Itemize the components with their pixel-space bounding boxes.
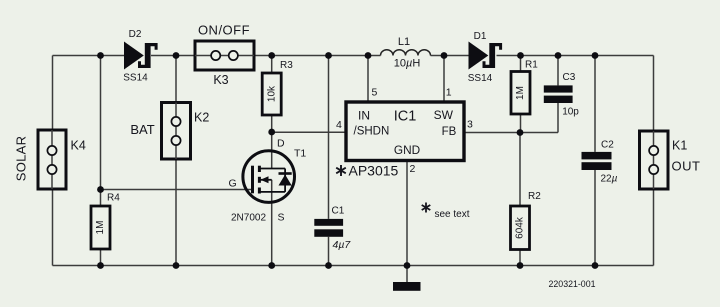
connector K1 (640, 131, 669, 189)
junction dot ground rail x595 (C2) (592, 262, 599, 269)
svg-text:5: 5 (372, 87, 378, 99)
svg-text:4µ7: 4µ7 (333, 239, 352, 251)
label C2 (601, 140, 614, 151)
wire node D to /SHDN pin4 (272, 131, 346, 133)
wire gate horizontal to T1 (101, 189, 253, 191)
junction dot top rail x272 (R3) (268, 52, 275, 59)
diode D1 (Schottky SS14) (469, 42, 503, 70)
svg-text:22µ: 22µ (601, 174, 618, 185)
wire top rail segment D2-to-K3 (node VBAT) (151, 55, 195, 57)
svg-text:1M: 1M (515, 86, 526, 100)
capacitor C2 (582, 152, 612, 170)
label D1 (474, 31, 487, 42)
svg-text:see text: see text (435, 209, 470, 220)
resistor R4 (91, 206, 110, 249)
junction dot ground rail x407 (GND pin) (404, 262, 411, 269)
svg-text:2: 2 (410, 163, 416, 175)
svg-text:BAT: BAT (130, 122, 154, 137)
svg-text:IN: IN (358, 109, 370, 123)
svg-text:10k: 10k (266, 85, 277, 102)
svg-text:10p: 10p (562, 107, 579, 118)
junction dot top rail x100 (97, 52, 104, 59)
junction dot top rail x444 (pin1) (441, 52, 448, 59)
label SOLAR (13, 136, 28, 182)
label K2 (194, 111, 209, 125)
label C3 (563, 72, 576, 83)
capacitor C1 (314, 219, 343, 237)
svg-text:K1: K1 (672, 138, 687, 152)
svg-text:220321-001: 220321-001 (549, 279, 596, 289)
wire R1 top lead (520, 56, 522, 72)
label BAT (130, 122, 154, 137)
label * AP3015 (336, 163, 398, 179)
wire IC1 pin5 IN lead (367, 56, 369, 103)
value label 10µH (394, 58, 421, 70)
svg-text:R1: R1 (525, 60, 538, 71)
connector K3 (195, 41, 254, 70)
wire left rail vertical (K4 branch) (52, 56, 54, 266)
value label 10p (562, 107, 579, 118)
pin number 4 (336, 119, 342, 131)
value label SS14 (D2) (123, 73, 148, 84)
wire IC1 pin2 GND lead to rail and ground (406, 161, 408, 283)
pin number 1 (446, 87, 452, 99)
label K3 (213, 73, 228, 87)
svg-text:AP3015: AP3015 (349, 163, 399, 179)
note * see text (422, 203, 470, 221)
pin label S (278, 212, 285, 224)
label R4 (107, 193, 120, 204)
svg-text:C2: C2 (601, 140, 614, 151)
wire K1 output vertical (653, 56, 655, 266)
junction dot ground rail x328 (C1) (325, 262, 332, 269)
wire T1 source lead to ground rail (271, 180, 273, 266)
svg-text:GND: GND (394, 143, 420, 157)
wire K2 battery vertical (175, 56, 177, 266)
label C1 (332, 206, 345, 217)
svg-text:SS14: SS14 (468, 73, 493, 84)
pin number 3 (467, 119, 473, 131)
label K4 (71, 139, 86, 153)
connector K2 (162, 103, 191, 160)
wire C1 top lead (328, 56, 330, 219)
wire top rail segment left (node VSOLAR) (53, 55, 125, 57)
svg-text:FB: FB (442, 126, 457, 138)
wire vertical solar-divider branch (100, 56, 102, 190)
label OUT (672, 158, 701, 173)
svg-text:C3: C3 (563, 72, 576, 83)
junction dot node D (268, 129, 275, 136)
wire top rail segment D1-to-K1 (node VOUT) (497, 55, 654, 57)
svg-text:IC1: IC1 (394, 108, 417, 124)
inductor L1 (381, 50, 431, 56)
svg-text:SS14: SS14 (123, 73, 148, 84)
svg-text:L1: L1 (398, 36, 410, 48)
junction dot ground rail x100 (97, 262, 104, 269)
svg-text:1: 1 (446, 87, 452, 99)
svg-text:R3: R3 (280, 60, 293, 71)
junction dot top rail x558 (C3) (555, 52, 562, 59)
svg-text:R4: R4 (107, 193, 120, 204)
wire R4 bottom lead (100, 249, 102, 266)
pin number 5 (372, 87, 378, 99)
wire IC1 pin1 SW lead (443, 56, 445, 103)
label ON/OFF (198, 22, 250, 37)
resistor R3 (262, 73, 281, 115)
resistor R1 (511, 72, 530, 115)
junction dot ground rail x176 (173, 262, 180, 269)
svg-text:2N7002: 2N7002 (231, 213, 266, 224)
label R3 (280, 60, 293, 71)
wire top rail segment L1-to-D1 (node SW) (431, 55, 469, 57)
diode D2 (Schottky SS14) (124, 42, 158, 70)
junction dot ground rail x520 (R2) (517, 262, 524, 269)
label R1 (525, 60, 538, 71)
wire top rail segment K3-to-L1 (node VIN) (254, 55, 381, 57)
svg-text:G: G (229, 177, 237, 189)
junction dot FB node (517, 129, 524, 136)
svg-text:R2: R2 (528, 191, 541, 202)
svg-text:OUT: OUT (672, 158, 701, 173)
svg-text:SW: SW (434, 108, 454, 122)
wire FB pin3 horizontal (node FB) (464, 132, 558, 134)
capacitor C3 (544, 85, 573, 103)
svg-text:10µH: 10µH (394, 58, 421, 70)
transistor T1 (N-MOSFET 2N7002) (243, 151, 295, 203)
op-amp IC1 (AP3015 boost converter) (346, 102, 464, 161)
svg-text:604k: 604k (515, 216, 526, 239)
svg-text:T1: T1 (294, 148, 306, 160)
svg-text:K2: K2 (194, 111, 209, 125)
svg-text:3: 3 (467, 119, 473, 131)
svg-text:S: S (278, 212, 285, 224)
label D2 (129, 29, 142, 40)
svg-text:1M: 1M (95, 221, 106, 235)
wire R2 bottom lead (519, 250, 521, 266)
junction dot top rail x368 (pin5) (365, 52, 372, 59)
svg-text:C1: C1 (332, 206, 345, 217)
pin number 2 (410, 163, 416, 175)
wire R3 top lead (271, 56, 273, 74)
wire C3 top lead (557, 56, 559, 86)
wire R4 top lead (100, 190, 102, 207)
label L1 (398, 36, 410, 48)
wire C2 bottom lead (594, 170, 596, 266)
value label 2N7002 (231, 213, 266, 224)
junction dot top rail x595 (C2) (592, 52, 599, 59)
wire C3 bottom lead riser (557, 103, 559, 133)
svg-text:K4: K4 (71, 139, 86, 153)
svg-text:/SHDN: /SHDN (354, 126, 390, 138)
label K1 (672, 138, 687, 152)
wire R1 bottom lead (520, 114, 522, 133)
svg-text:SOLAR: SOLAR (13, 136, 28, 182)
wire bottom ground rail (53, 265, 654, 267)
svg-text:D: D (277, 138, 285, 150)
connector K4 (38, 130, 66, 189)
junction dot ground rail x272 (source) (268, 262, 275, 269)
value label 4µ7 (333, 239, 352, 251)
svg-text:ON/OFF: ON/OFF (198, 22, 250, 37)
value label SS14 (D1) (468, 73, 493, 84)
svg-text:K3: K3 (213, 73, 228, 87)
wire R3 bottom lead to node D (271, 115, 273, 132)
junction dot gate node (97, 186, 104, 193)
junction dot top rail x328 (C1) (325, 52, 332, 59)
wire C2 top lead (594, 56, 596, 152)
pin label D (277, 138, 285, 150)
label 220321-001 (549, 279, 596, 289)
value label 22µ (601, 174, 618, 185)
label R2 (528, 191, 541, 202)
pin label G (229, 177, 237, 189)
wire T1 drain lead (271, 132, 273, 169)
resistor R2 (511, 206, 530, 250)
svg-text:4: 4 (336, 119, 342, 131)
label T1 (294, 148, 306, 160)
ground symbol (393, 282, 421, 291)
junction dot top rail x520 (R1) (517, 52, 524, 59)
svg-text:D2: D2 (129, 29, 142, 40)
wire R2 top lead (519, 133, 521, 207)
wire C1 bottom lead (328, 237, 330, 266)
svg-text:D1: D1 (474, 31, 487, 42)
junction dot top rail x176 (173, 52, 180, 59)
